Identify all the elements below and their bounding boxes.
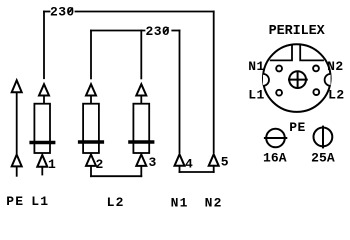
- wire stem arrow PE bottom: [16, 166, 18, 175]
- arrow column3 top: [136, 84, 146, 95]
- wire PE column vertical: [16, 92, 18, 153]
- wire 230 second bus left segment (L2a to L2b): [91, 30, 145, 32]
- arrow N2 (5): [209, 154, 219, 166]
- svg-text:230: 230: [50, 4, 75, 19]
- arrow column3 bottom: [136, 155, 146, 166]
- arrow L1 top: [39, 84, 49, 95]
- svg-text:4: 4: [185, 156, 193, 171]
- svg-text:PE: PE: [6, 194, 24, 209]
- svg-text:16A: 16A: [263, 150, 287, 165]
- wire bracket N1-N2 bottom: [180, 171, 214, 173]
- svg-text:L1: L1: [248, 87, 265, 102]
- svg-text:L1: L1: [31, 194, 49, 209]
- socket hole L2: [313, 89, 319, 95]
- socket outer circle: [263, 44, 331, 112]
- svg-text:L2: L2: [328, 87, 345, 102]
- wire stem arrow L1 bottom: [41, 167, 43, 175]
- svg-text:PERILEX: PERILEX: [269, 24, 326, 39]
- wire 230 second bus right segment (to N1 column): [172, 30, 179, 32]
- wire stem arrow L1 top to fuse: [43, 96, 45, 104]
- svg-text:L2: L2: [107, 195, 125, 210]
- fuse symbol 25A bar: [322, 126, 324, 149]
- arrow N1 (4): [175, 154, 185, 166]
- socket centre screw cross vertical: [297, 71, 299, 89]
- wire stem arrow col3 bottom: [140, 166, 142, 176]
- fuse F2 (column 2) body: [83, 104, 99, 153]
- socket hole N1: [276, 66, 282, 72]
- wire N2 column vertical: [213, 12, 215, 153]
- fuse symbol 16A circle: [266, 129, 285, 148]
- wire L1 column vertical: [43, 12, 45, 79]
- arrow L1 bottom: [37, 155, 47, 167]
- wire column 2 vertical: [90, 31, 92, 79]
- svg-text:PE: PE: [289, 120, 306, 135]
- wire stem arrow 4: [179, 166, 181, 172]
- wire N1 column vertical: [179, 31, 181, 153]
- svg-text:N1: N1: [171, 196, 189, 211]
- wire stem arrow col3 top to fuse: [140, 96, 142, 104]
- svg-text:1: 1: [48, 157, 56, 172]
- svg-text:230: 230: [146, 24, 171, 39]
- wire stem arrow 5: [213, 166, 215, 172]
- svg-text:3: 3: [149, 155, 157, 170]
- svg-text:25A: 25A: [311, 150, 335, 165]
- slashed zero of upper 230: [68, 8, 73, 14]
- socket side notch left: [263, 74, 269, 86]
- wire stem arrow col2 bottom: [90, 166, 92, 176]
- svg-text:5: 5: [221, 155, 229, 170]
- arrow PE top: [12, 80, 22, 92]
- wire column 3 vertical: [140, 31, 142, 79]
- fuse F1 bar: [29, 141, 55, 144]
- fuse F3 (column 3) body: [133, 104, 149, 153]
- svg-text:N2: N2: [205, 196, 223, 211]
- arrow PE bottom: [12, 155, 22, 167]
- svg-text:N2: N2: [327, 59, 344, 74]
- fuse F2 bar: [78, 140, 104, 143]
- socket hole L1: [276, 90, 282, 96]
- arrow column2 top: [86, 84, 96, 95]
- slashed zero of lower 230: [164, 27, 169, 33]
- wire 230 top bus right segment (to N2 column): [76, 11, 214, 13]
- fuse F3 bar: [128, 140, 154, 143]
- wire bracket L2 bottom: [91, 175, 141, 177]
- wire stem arrow col2 top to fuse: [90, 96, 92, 104]
- fuse symbol 25A circle: [314, 127, 333, 146]
- svg-text:2: 2: [96, 157, 104, 172]
- socket hole N2: [313, 66, 319, 72]
- wire 230 top bus left segment: [44, 11, 50, 13]
- fuse symbol 16A bar: [264, 137, 287, 139]
- arrow column2 bottom: [86, 155, 96, 166]
- svg-text:N1: N1: [248, 59, 265, 74]
- socket PE keyway: [270, 44, 324, 60]
- socket centre screw circle: [289, 71, 306, 88]
- socket centre screw cross horizontal: [288, 79, 308, 81]
- socket side notch right: [325, 74, 331, 86]
- fuse F1 (L1) body: [34, 104, 50, 153]
